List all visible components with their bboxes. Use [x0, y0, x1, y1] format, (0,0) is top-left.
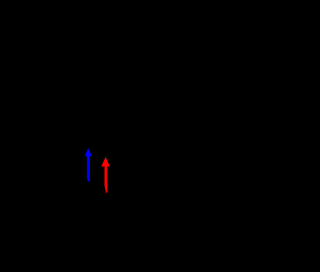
red vector arrow: [101, 157, 110, 193]
blue vector arrow: [85, 148, 92, 181]
